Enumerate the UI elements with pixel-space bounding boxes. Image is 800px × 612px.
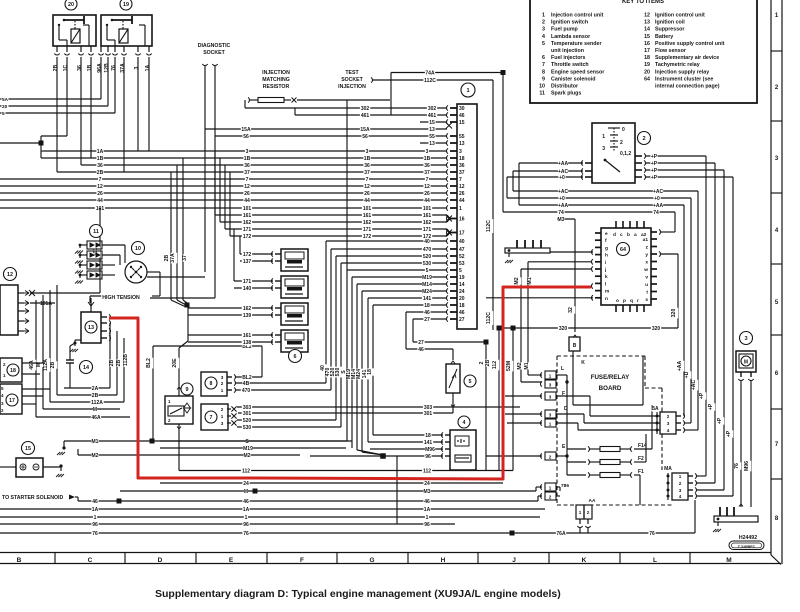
switch left pins bbox=[585, 162, 592, 164]
fuse F1 bbox=[588, 472, 590, 477]
svg-text:2: 2 bbox=[542, 20, 545, 26]
maker oval stamp bbox=[729, 541, 764, 550]
svg-text:302: 302 bbox=[428, 106, 437, 112]
svg-text:26: 26 bbox=[364, 191, 370, 197]
svg-text:101: 101 bbox=[363, 206, 372, 212]
svg-text:Tachymetric relay: Tachymetric relay bbox=[655, 62, 700, 68]
svg-text:303: 303 bbox=[424, 405, 433, 411]
wire 2A row bbox=[64, 387, 110, 389]
svg-text:15A: 15A bbox=[241, 127, 251, 133]
svg-text:56: 56 bbox=[243, 134, 249, 140]
svg-text:2: 2 bbox=[620, 140, 623, 146]
wire M row bbox=[120, 490, 536, 492]
wire 56 bbox=[215, 135, 447, 137]
svg-text:12: 12 bbox=[644, 13, 650, 19]
svg-text:8: 8 bbox=[210, 381, 213, 387]
svg-text:3: 3 bbox=[426, 149, 429, 155]
svg-text:+0: +0 bbox=[559, 175, 565, 181]
svg-text:Ignition switch: Ignition switch bbox=[551, 20, 588, 26]
wire M19 row bbox=[160, 447, 346, 449]
svg-text:2B: 2B bbox=[50, 361, 56, 368]
wire 74A bbox=[391, 72, 503, 74]
svg-text:h: h bbox=[605, 253, 608, 259]
svg-text:3: 3 bbox=[549, 383, 552, 388]
svg-text:FUSE/RELAY: FUSE/RELAY bbox=[591, 374, 630, 381]
suppressor 14 bbox=[69, 346, 71, 360]
svg-text:M19: M19 bbox=[243, 446, 253, 452]
svg-text:161: 161 bbox=[423, 213, 432, 219]
svg-text:161: 161 bbox=[243, 333, 252, 339]
svg-text:12B: 12B bbox=[104, 63, 110, 73]
svg-text:1B: 1B bbox=[424, 156, 431, 162]
svg-text:112: 112 bbox=[492, 361, 498, 369]
svg-text:4B: 4B bbox=[243, 381, 250, 387]
svg-text:44: 44 bbox=[424, 198, 430, 204]
connector 12 bbox=[4, 268, 17, 281]
svg-text:46: 46 bbox=[424, 310, 430, 316]
svg-text:M2: M2 bbox=[244, 453, 251, 459]
svg-text:+P: +P bbox=[651, 161, 658, 167]
svg-text:3: 3 bbox=[679, 488, 682, 493]
svg-text:140: 140 bbox=[243, 286, 252, 292]
svg-text:96: 96 bbox=[243, 522, 249, 528]
svg-text:15: 15 bbox=[644, 34, 650, 40]
svg-text:15: 15 bbox=[25, 446, 31, 452]
svg-text:24: 24 bbox=[243, 481, 249, 487]
svg-text:76: 76 bbox=[111, 65, 117, 71]
main wire bus left-to-ECU bbox=[44, 150, 447, 152]
svg-text:10: 10 bbox=[539, 84, 545, 90]
svg-text:520: 520 bbox=[423, 254, 432, 260]
svg-text:162: 162 bbox=[423, 220, 432, 226]
svg-text:36: 36 bbox=[244, 163, 250, 169]
wire 112A row bbox=[50, 401, 124, 403]
svg-text:+0: +0 bbox=[559, 196, 565, 202]
svg-text:MATCHING: MATCHING bbox=[262, 77, 290, 83]
svg-text:M14: M14 bbox=[422, 282, 432, 288]
svg-text:M1: M1 bbox=[92, 439, 99, 445]
wire 171 bbox=[225, 228, 447, 230]
svg-text:301: 301 bbox=[243, 411, 252, 417]
svg-text:m: m bbox=[605, 290, 609, 295]
svg-text:F: F bbox=[300, 557, 304, 564]
svg-text:112B: 112B bbox=[123, 354, 129, 366]
svg-text:q: q bbox=[630, 299, 633, 304]
instrument cluster 64 bbox=[601, 228, 651, 305]
svg-text:13: 13 bbox=[88, 325, 94, 331]
svg-text:3: 3 bbox=[246, 149, 249, 155]
svg-text:d: d bbox=[613, 232, 616, 238]
svg-text:T.JURREC: T.JURREC bbox=[738, 545, 756, 549]
ignition coil 13 bbox=[81, 312, 101, 343]
cluster pin a2 wire bbox=[659, 229, 661, 234]
svg-text:Injection control unit: Injection control unit bbox=[551, 13, 604, 19]
svg-text:+P: +P bbox=[699, 392, 705, 399]
svg-text:Fuel injectors: Fuel injectors bbox=[551, 55, 585, 61]
svg-text:1: 1 bbox=[679, 474, 682, 479]
svg-text:p: p bbox=[623, 299, 626, 304]
svg-text:15: 15 bbox=[429, 120, 435, 126]
svg-text:AA: AA bbox=[589, 498, 596, 504]
wire 520 bbox=[336, 255, 447, 257]
svg-text:Injection supply relay: Injection supply relay bbox=[655, 69, 709, 75]
svg-text:L: L bbox=[653, 557, 657, 564]
wire M19 bbox=[352, 276, 447, 278]
svg-text:26: 26 bbox=[244, 191, 250, 197]
svg-text:0: 0 bbox=[622, 127, 625, 133]
wire +P rows bbox=[646, 155, 706, 157]
svg-text:M24: M24 bbox=[422, 289, 432, 295]
svg-text:1: 1 bbox=[549, 374, 552, 379]
svg-text:36: 36 bbox=[97, 163, 103, 169]
svg-text:+P: +P bbox=[651, 154, 658, 160]
svg-text:15: 15 bbox=[459, 120, 465, 126]
svg-text:+P: +P bbox=[651, 175, 658, 181]
svg-text:461: 461 bbox=[361, 113, 370, 119]
svg-text:2: 2 bbox=[549, 455, 552, 460]
svg-text:2: 2 bbox=[679, 481, 682, 486]
fuel injector 6a bbox=[281, 249, 308, 271]
wire 12B bbox=[0, 105, 108, 107]
svg-text:o: o bbox=[616, 299, 619, 304]
svg-text:172: 172 bbox=[243, 252, 252, 258]
wire +AC vertical bbox=[697, 191, 699, 430]
svg-text:18: 18 bbox=[459, 156, 465, 162]
wire M1 vertical bbox=[591, 259, 593, 264]
svg-text:9: 9 bbox=[186, 387, 189, 393]
svg-text:unit injection: unit injection bbox=[551, 48, 584, 54]
wire 1A row bbox=[0, 508, 545, 510]
svg-text:44: 44 bbox=[459, 198, 465, 204]
fuel injector 6b bbox=[281, 276, 308, 298]
svg-text:47: 47 bbox=[459, 247, 465, 253]
svg-text:46: 46 bbox=[243, 499, 249, 505]
svg-text:M3: M3 bbox=[558, 217, 565, 223]
svg-text:F2: F2 bbox=[638, 456, 644, 462]
svg-text:2: 2 bbox=[549, 495, 552, 500]
svg-text:2: 2 bbox=[642, 136, 645, 142]
svg-text:L: L bbox=[561, 366, 564, 372]
svg-text:53: 53 bbox=[459, 261, 465, 267]
wire 162 bbox=[220, 221, 447, 223]
wire +P vertical 4 bbox=[732, 177, 734, 496]
wire +0 row bbox=[507, 197, 691, 199]
wire M2 vertical bbox=[591, 266, 593, 271]
svg-text:Canister solenoid: Canister solenoid bbox=[551, 76, 595, 82]
starter solenoid text bbox=[2, 495, 64, 501]
wire 1C vertical bbox=[66, 57, 68, 136]
svg-text:SOCKET: SOCKET bbox=[203, 50, 225, 56]
fuel injector 6c bbox=[281, 303, 308, 325]
wire 46 row to temperature sender bbox=[406, 348, 453, 350]
svg-text:2: 2 bbox=[221, 407, 224, 412]
svg-text:2B: 2B bbox=[97, 170, 104, 176]
svg-text:7: 7 bbox=[542, 62, 545, 68]
svg-text:64: 64 bbox=[620, 247, 626, 253]
svg-text:320: 320 bbox=[652, 326, 661, 332]
svg-text:139: 139 bbox=[243, 313, 252, 319]
svg-text:56: 56 bbox=[362, 134, 368, 140]
fuel pump wires bbox=[740, 381, 742, 507]
svg-text:M96: M96 bbox=[744, 461, 750, 471]
svg-text:x: x bbox=[645, 261, 648, 266]
svg-text:+AA: +AA bbox=[558, 203, 569, 209]
svg-text:2B: 2B bbox=[109, 359, 115, 366]
svg-text:1: 1 bbox=[602, 134, 605, 140]
svg-text:112: 112 bbox=[242, 469, 250, 475]
svg-text:3: 3 bbox=[459, 149, 462, 155]
svg-text:3: 3 bbox=[542, 27, 545, 33]
op-amp U1 injection control unit connector 1 bbox=[461, 83, 475, 97]
svg-text:M: M bbox=[244, 489, 248, 495]
connector AA bbox=[589, 498, 596, 503]
wire 18 bbox=[373, 304, 447, 306]
svg-text:DIAGNOSTIC: DIAGNOSTIC bbox=[198, 43, 231, 49]
svg-text:4: 4 bbox=[542, 34, 545, 40]
svg-text:j: j bbox=[604, 267, 606, 273]
svg-text:9: 9 bbox=[542, 76, 545, 82]
svg-text:Positive supply control unit: Positive supply control unit bbox=[655, 41, 725, 47]
svg-text:40: 40 bbox=[459, 239, 465, 245]
svg-text:101: 101 bbox=[243, 206, 252, 212]
svg-text:12: 12 bbox=[459, 184, 465, 190]
svg-text:14: 14 bbox=[459, 282, 465, 288]
svg-text:1A: 1A bbox=[145, 64, 151, 71]
fuse relay board dashed outline bbox=[556, 356, 558, 505]
throttle switch 7 bbox=[201, 404, 228, 430]
wire 2 vertical bbox=[485, 342, 487, 471]
svg-text:13: 13 bbox=[429, 141, 435, 147]
svg-text:TO STARTER SOLENOID: TO STARTER SOLENOID bbox=[2, 495, 63, 501]
svg-text:52: 52 bbox=[459, 254, 465, 260]
cluster left hook m red target bbox=[591, 283, 593, 288]
svg-text:Ignition control unit: Ignition control unit bbox=[655, 13, 705, 19]
red highlighted trace bbox=[109, 287, 591, 479]
svg-text:3: 3 bbox=[549, 413, 552, 418]
svg-text:96A: 96A bbox=[97, 63, 103, 73]
connector MA bbox=[664, 466, 671, 472]
svg-text:40: 40 bbox=[424, 239, 430, 245]
svg-text:4: 4 bbox=[679, 494, 682, 499]
svg-text:12: 12 bbox=[97, 184, 103, 190]
wire 112 row bbox=[179, 470, 513, 472]
svg-text:46: 46 bbox=[459, 310, 465, 316]
wire 74 row bbox=[503, 211, 675, 213]
svg-text:Spark plugs: Spark plugs bbox=[551, 91, 581, 97]
diagnostic socket bbox=[197, 43, 230, 49]
wire 76 row bbox=[0, 532, 695, 534]
svg-text:BOARD: BOARD bbox=[599, 385, 622, 392]
svg-text:D: D bbox=[158, 557, 163, 564]
svg-text:30: 30 bbox=[459, 106, 465, 112]
board connector 786 bbox=[560, 483, 570, 488]
svg-text:20E: 20E bbox=[172, 358, 178, 368]
fuel pump 3 bbox=[740, 332, 753, 345]
svg-text:172: 172 bbox=[243, 234, 252, 240]
svg-text:M19: M19 bbox=[422, 275, 432, 281]
svg-text:M3: M3 bbox=[424, 489, 431, 495]
svg-text:7: 7 bbox=[366, 177, 369, 183]
wire 141 to lambda bbox=[368, 441, 443, 443]
distributor to diag wire bbox=[147, 276, 205, 278]
svg-text:+P: +P bbox=[651, 168, 658, 174]
svg-text:76A: 76A bbox=[556, 531, 566, 537]
svg-text:KEY TO ITEMS: KEY TO ITEMS bbox=[622, 0, 664, 5]
injection matching resistor bbox=[261, 70, 291, 76]
svg-text:786: 786 bbox=[561, 483, 569, 489]
svg-text:Fuel pump: Fuel pump bbox=[551, 27, 579, 33]
svg-text:530: 530 bbox=[243, 425, 252, 431]
wire 141 bbox=[368, 297, 447, 299]
canister solenoid 9 bbox=[181, 383, 193, 395]
cluster pin y wire bbox=[659, 251, 661, 256]
lambda sensor 4 bbox=[458, 416, 470, 428]
svg-text:44: 44 bbox=[364, 198, 370, 204]
svg-text:36: 36 bbox=[424, 163, 430, 169]
svg-text:+0: +0 bbox=[654, 196, 660, 202]
svg-text:162: 162 bbox=[243, 306, 252, 312]
svg-text:26: 26 bbox=[424, 191, 430, 197]
svg-text:Battery: Battery bbox=[655, 34, 673, 40]
connector BA bbox=[651, 406, 658, 412]
svg-text:6: 6 bbox=[294, 354, 297, 360]
wire 46 bend bbox=[406, 311, 447, 313]
svg-text:H: H bbox=[441, 557, 446, 564]
cluster left hook n bbox=[591, 295, 593, 300]
wire 46 row bbox=[78, 500, 538, 502]
svg-text:530: 530 bbox=[423, 261, 432, 267]
svg-text:141: 141 bbox=[423, 296, 432, 302]
switch right pins bbox=[635, 155, 642, 157]
svg-text:46: 46 bbox=[459, 113, 465, 119]
svg-text:M2: M2 bbox=[92, 453, 99, 459]
svg-text:1: 1 bbox=[94, 515, 97, 521]
wire M2 row bottom bbox=[78, 454, 300, 456]
svg-text:11: 11 bbox=[93, 229, 99, 235]
canister solenoid 9 feed bbox=[187, 307, 189, 341]
wire 5/S bbox=[347, 269, 447, 271]
svg-text:18: 18 bbox=[424, 303, 430, 309]
svg-text:HIGH TENSION: HIGH TENSION bbox=[102, 295, 140, 301]
battery 15 bbox=[22, 442, 35, 455]
svg-text:u: u bbox=[645, 283, 648, 288]
engine speed sensor 8 bbox=[201, 372, 227, 396]
svg-text:2B: 2B bbox=[485, 359, 491, 366]
svg-text:470: 470 bbox=[242, 388, 251, 394]
svg-text:74: 74 bbox=[558, 210, 564, 216]
wire BL2 row bbox=[153, 345, 262, 347]
svg-text:+D: +D bbox=[684, 371, 690, 378]
svg-text:470: 470 bbox=[423, 247, 432, 253]
svg-text:14: 14 bbox=[83, 365, 89, 371]
svg-text:K: K bbox=[582, 557, 587, 564]
svg-text:l: l bbox=[605, 281, 606, 287]
svg-text:76: 76 bbox=[649, 531, 655, 537]
svg-text:5: 5 bbox=[426, 268, 429, 274]
svg-text:13: 13 bbox=[459, 141, 465, 147]
svg-text:10: 10 bbox=[135, 246, 141, 252]
svg-text:M: M bbox=[93, 407, 97, 413]
svg-text:SOCKET: SOCKET bbox=[341, 77, 363, 83]
svg-text:171: 171 bbox=[423, 227, 432, 233]
svg-text:1B: 1B bbox=[244, 156, 251, 162]
svg-text:76: 76 bbox=[734, 463, 740, 469]
svg-text:K: K bbox=[581, 360, 585, 366]
svg-text:17: 17 bbox=[644, 48, 650, 54]
wire 320 row bbox=[499, 327, 678, 329]
svg-text:161: 161 bbox=[243, 213, 252, 219]
svg-text:46: 46 bbox=[92, 499, 98, 505]
svg-text:138: 138 bbox=[243, 340, 252, 346]
injector group label bbox=[289, 350, 302, 363]
svg-text:55: 55 bbox=[429, 134, 435, 140]
wire +AC to switch bbox=[513, 170, 583, 172]
svg-text:+AA: +AA bbox=[653, 203, 664, 209]
svg-text:Suppressor: Suppressor bbox=[655, 27, 684, 33]
svg-text:H24492: H24492 bbox=[739, 535, 757, 541]
svg-text:RESISTOR: RESISTOR bbox=[263, 84, 290, 90]
svg-text:12: 12 bbox=[244, 184, 250, 190]
svg-text:27: 27 bbox=[418, 340, 424, 346]
svg-text:1: 1 bbox=[459, 206, 462, 212]
wire 96 row bbox=[0, 523, 455, 525]
svg-text:1: 1 bbox=[426, 515, 429, 521]
wire +P vertical 2 bbox=[714, 163, 716, 483]
wire +0 to switch bbox=[507, 176, 583, 178]
svg-text:+P: +P bbox=[726, 430, 732, 437]
svg-text:1A: 1A bbox=[424, 507, 431, 513]
svg-text:37A: 37A bbox=[170, 253, 176, 263]
svg-text:7: 7 bbox=[210, 415, 213, 421]
wire 301 bbox=[238, 412, 453, 414]
svg-text:44: 44 bbox=[244, 198, 250, 204]
svg-text:1: 1 bbox=[579, 510, 582, 515]
svg-text:+P: +P bbox=[708, 403, 714, 410]
svg-text:B: B bbox=[573, 343, 577, 349]
svg-text:302: 302 bbox=[361, 106, 370, 112]
svg-text:112C: 112C bbox=[424, 78, 436, 84]
svg-text:24: 24 bbox=[459, 289, 465, 295]
svg-text:M2: M2 bbox=[517, 362, 523, 369]
svg-text:M1: M1 bbox=[524, 362, 530, 369]
svg-text:1B: 1B bbox=[364, 156, 371, 162]
svg-text:5: 5 bbox=[2, 111, 5, 117]
wire 18 to lambda bbox=[373, 434, 443, 436]
coil pin verticals bbox=[109, 323, 111, 388]
svg-text:e: e bbox=[605, 232, 608, 237]
svg-text:1: 1 bbox=[221, 414, 224, 419]
frame right ruler bbox=[770, 0, 772, 555]
svg-text:12: 12 bbox=[424, 184, 430, 190]
svg-text:162: 162 bbox=[363, 220, 372, 226]
svg-text:20: 20 bbox=[644, 69, 650, 75]
wire 96A from relay 19 bbox=[0, 98, 101, 100]
component 18 supplementary air device bbox=[0, 358, 22, 382]
svg-text:1A: 1A bbox=[97, 149, 104, 155]
wire +P vertical 1 bbox=[705, 156, 707, 476]
wire 461 bbox=[295, 114, 447, 116]
wire +AA row bbox=[519, 204, 684, 206]
svg-text:36: 36 bbox=[77, 65, 83, 71]
svg-text:17: 17 bbox=[9, 398, 15, 404]
wire +AC row bbox=[513, 190, 698, 192]
svg-text:520: 520 bbox=[243, 418, 252, 424]
svg-text:112A: 112A bbox=[43, 359, 49, 371]
svg-text:162: 162 bbox=[243, 220, 252, 226]
wire 15 bbox=[420, 121, 447, 123]
svg-text:8: 8 bbox=[542, 69, 545, 75]
svg-text:INJECTION: INJECTION bbox=[262, 70, 290, 76]
